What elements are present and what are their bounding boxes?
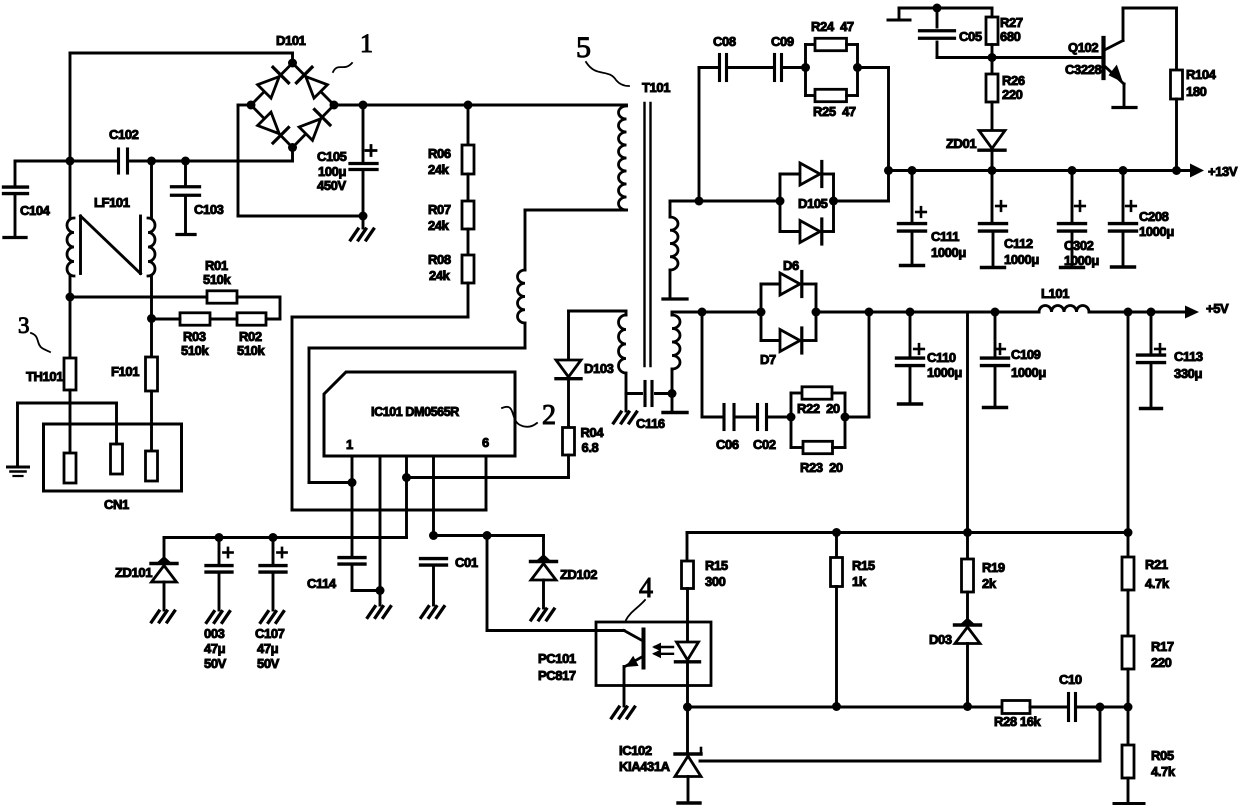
svg-text:C112: C112 (1004, 236, 1033, 251)
svg-text:R104: R104 (1186, 67, 1217, 82)
svg-text:180: 180 (1186, 84, 1207, 99)
svg-text:C08: C08 (713, 34, 736, 49)
svg-text:2: 2 (542, 400, 556, 431)
svg-text:C103: C103 (194, 202, 224, 217)
svg-text:300: 300 (705, 574, 726, 589)
svg-text:510k: 510k (181, 343, 209, 358)
svg-text:R15: R15 (705, 558, 728, 573)
svg-text:47μ: 47μ (257, 641, 279, 656)
svg-text:CN1: CN1 (104, 497, 129, 512)
svg-text:R28 16k: R28 16k (994, 714, 1042, 729)
svg-text:C109: C109 (1011, 347, 1041, 362)
svg-text:R22 20: R22 20 (797, 401, 840, 416)
svg-text:510k: 510k (203, 272, 231, 287)
svg-text:R07: R07 (428, 202, 451, 217)
svg-text:50V: 50V (257, 656, 280, 671)
svg-text:IC101 DM0565R: IC101 DM0565R (371, 405, 459, 419)
svg-text:KIA431A: KIA431A (619, 759, 671, 774)
svg-text:4.7k: 4.7k (1151, 764, 1176, 779)
svg-text:680: 680 (1000, 29, 1021, 44)
svg-text:C3228: C3228 (1065, 62, 1101, 77)
svg-text:6: 6 (482, 435, 489, 450)
svg-text:1000μ: 1000μ (931, 245, 966, 260)
svg-text:3: 3 (18, 313, 30, 338)
svg-text:5: 5 (576, 31, 591, 64)
svg-text:1000μ: 1000μ (1064, 253, 1099, 268)
svg-text:R08: R08 (428, 252, 451, 267)
svg-text:R24 47: R24 47 (811, 19, 854, 34)
svg-text:C05: C05 (959, 29, 982, 44)
svg-text:C111: C111 (931, 229, 959, 244)
svg-text:R21: R21 (1145, 557, 1168, 572)
svg-text:R01: R01 (205, 258, 228, 273)
svg-text:220: 220 (1151, 655, 1172, 670)
svg-text:R25 47: R25 47 (813, 104, 856, 119)
svg-text:D101: D101 (276, 33, 306, 48)
svg-text:R03: R03 (183, 329, 206, 344)
svg-text:C01: C01 (455, 555, 478, 570)
svg-text:C116: C116 (636, 416, 665, 431)
svg-text:C105: C105 (317, 149, 347, 164)
svg-text:C107: C107 (255, 626, 285, 641)
svg-text:PC817: PC817 (538, 668, 576, 683)
svg-text:R04: R04 (581, 425, 605, 440)
svg-text:C114: C114 (307, 576, 337, 591)
svg-text:C302: C302 (1064, 238, 1094, 253)
svg-text:D7: D7 (760, 352, 776, 367)
svg-text:D105: D105 (798, 196, 828, 211)
svg-text:1: 1 (360, 29, 373, 58)
svg-text:450V: 450V (317, 178, 346, 193)
svg-text:R23 20: R23 20 (800, 460, 843, 475)
svg-text:ZD102: ZD102 (560, 567, 597, 582)
svg-text:F101: F101 (111, 364, 139, 379)
svg-text:R06: R06 (428, 146, 451, 161)
svg-text:T101: T101 (642, 80, 670, 95)
svg-text:24k: 24k (429, 268, 451, 283)
svg-text:R19: R19 (982, 560, 1005, 575)
svg-text:24k: 24k (428, 162, 450, 177)
svg-text:C104: C104 (20, 203, 51, 218)
svg-text:+5V: +5V (1206, 301, 1229, 316)
svg-text:1: 1 (346, 437, 353, 452)
svg-text:003: 003 (204, 626, 225, 641)
svg-text:C102: C102 (109, 127, 139, 142)
svg-text:Q102: Q102 (1068, 40, 1098, 55)
svg-text:1000μ: 1000μ (1011, 365, 1046, 380)
svg-text:C110: C110 (927, 350, 956, 365)
svg-text:1000μ: 1000μ (1004, 252, 1039, 267)
svg-text:+13V: +13V (1208, 164, 1238, 179)
svg-text:47μ: 47μ (204, 641, 226, 656)
svg-text:C06: C06 (716, 437, 739, 452)
svg-text:R17: R17 (1151, 639, 1174, 654)
svg-text:1k: 1k (852, 574, 867, 589)
svg-text:R05: R05 (1151, 748, 1174, 763)
svg-text:330μ: 330μ (1174, 366, 1202, 381)
svg-text:50V: 50V (204, 656, 227, 671)
svg-text:24k: 24k (428, 218, 450, 233)
svg-text:D03: D03 (929, 632, 952, 647)
svg-text:C09: C09 (771, 34, 794, 49)
svg-text:4.7k: 4.7k (1145, 576, 1170, 591)
svg-text:C208: C208 (1139, 209, 1169, 224)
svg-text:ZD101: ZD101 (115, 565, 152, 580)
svg-text:100μ: 100μ (318, 164, 346, 179)
svg-text:D6: D6 (783, 258, 799, 273)
svg-text:L101: L101 (1041, 286, 1069, 301)
svg-text:220: 220 (1002, 87, 1023, 102)
svg-text:TH101: TH101 (26, 369, 63, 384)
svg-text:2k: 2k (982, 576, 997, 591)
svg-text:1000μ: 1000μ (927, 365, 962, 380)
svg-text:D103: D103 (584, 361, 614, 376)
svg-text:1000μ: 1000μ (1139, 224, 1174, 239)
svg-text:C10: C10 (1059, 672, 1082, 687)
svg-text:C02: C02 (753, 437, 776, 452)
svg-text:LF101: LF101 (94, 195, 130, 210)
svg-text:PC101: PC101 (538, 651, 576, 666)
svg-text:R15: R15 (852, 558, 875, 573)
svg-text:510k: 510k (237, 343, 265, 358)
svg-text:R26: R26 (1002, 73, 1025, 88)
svg-text:R02: R02 (239, 329, 262, 344)
svg-text:IC102: IC102 (619, 743, 652, 758)
svg-text:4: 4 (639, 573, 653, 604)
svg-text:ZD01: ZD01 (946, 136, 976, 151)
svg-text:R27: R27 (1000, 15, 1023, 30)
svg-text:C113: C113 (1174, 349, 1203, 364)
svg-text:6.8: 6.8 (582, 440, 599, 455)
